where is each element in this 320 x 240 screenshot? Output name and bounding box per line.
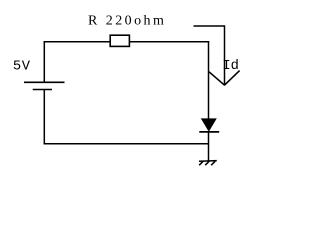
wire: top right (resistor to right corner) (130, 41, 210, 43)
battery V1 positive plate (long) (24, 81, 65, 83)
current arrow Id: arrowhead left wing (209, 72, 225, 86)
diode D1 cathode bar (199, 131, 219, 133)
wire: left lower (battery - down to bottom corner) (43, 90, 45, 145)
ground hatch tick 3 (211, 161, 215, 165)
current arrow Id: vertical shaft (224, 25, 226, 85)
ground hatch tick 2 (205, 161, 209, 165)
wire: junction down to ground (208, 144, 210, 161)
battery V1 negative plate (short) (33, 89, 52, 91)
svg-text:5V: 5V (13, 60, 31, 75)
ground (chassis) bar (199, 160, 217, 163)
wire: bottom (left corner to diode junction) (44, 143, 209, 145)
wire: left upper (top corner down to battery +) (43, 41, 45, 82)
wire: right vertical (top right corner down to diode anode) (208, 41, 210, 120)
svg-text:R 220ohm: R 220ohm (88, 14, 166, 29)
wire: top left (battery + to resistor) (44, 41, 110, 43)
wire: diode cathode to bottom junction (208, 132, 210, 144)
ground hatch tick 1 (199, 161, 203, 165)
svg-text:Id: Id (222, 58, 239, 74)
current arrow Id: arrowhead right wing (224, 71, 239, 86)
current arrow Id: horizontal segment (194, 25, 225, 27)
diode D1 (triangle) (202, 119, 216, 131)
resistor R 220ohm (box) (110, 35, 129, 46)
